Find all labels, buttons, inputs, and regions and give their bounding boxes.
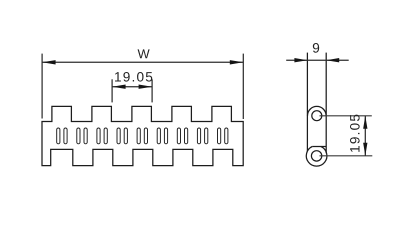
side view left edge [306,53,308,152]
slots group [57,128,228,144]
19.05 side dimension line [364,116,366,156]
slot pair 3 [97,128,100,144]
slot pair 6 [157,128,160,144]
19.05 arrowhead right [139,85,153,89]
slot pair 5 [137,128,140,144]
slot pair 7 [177,128,180,144]
side view bottom chord line [312,146,326,148]
side view top hinge barrel arc [308,106,327,115]
side view bottom pin hole [311,151,321,161]
19.05 side arrowhead bottom (pointing down) [363,143,367,156]
chain module plate outline (top view) [42,106,243,165]
W arrowhead left [42,60,56,64]
9 dimension text [313,43,319,53]
19.05 side text (rotated) [350,115,360,152]
9 dimension line with tails [286,59,349,61]
side view top pin hole [312,111,322,121]
side view right edge [325,53,327,154]
19.05 side extension line bottom [320,155,373,157]
W dimension extension line right [242,54,244,119]
19.05 arrowhead left [112,85,126,89]
19.05 pitch dimension line [112,86,152,88]
W arrowhead right [230,60,244,64]
19.05 pitch extension line left [111,79,113,102]
slot pair 9 [218,128,221,144]
9 arrowhead left (pointing right) [294,58,307,62]
19.05 side arrowhead top (pointing up) [363,116,367,129]
slot pair 8 [197,128,200,144]
side view bottom hinge barrel [306,147,327,167]
slot pair 2 [77,128,80,144]
W dimension text [138,49,150,58]
slot pair 4 [117,128,120,144]
W dimension line [42,61,243,63]
slot pair 1 [57,128,60,144]
19.05 side extension line top [320,115,372,117]
W dimension extension line left [41,54,43,119]
19.05 pitch extension line right [151,79,153,102]
19.05 pitch text [115,72,152,82]
9 arrowhead right (pointing left) [326,58,339,62]
